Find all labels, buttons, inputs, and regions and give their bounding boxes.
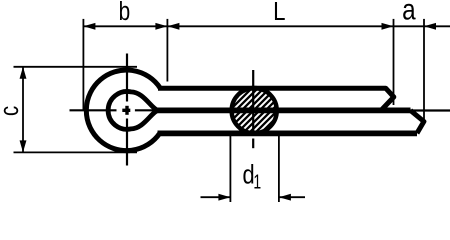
svg-text:a: a [402,0,416,26]
svg-text:c: c [0,106,23,116]
svg-text:1: 1 [253,170,261,193]
svg-text:b: b [119,0,131,25]
svg-text:L: L [273,0,285,26]
